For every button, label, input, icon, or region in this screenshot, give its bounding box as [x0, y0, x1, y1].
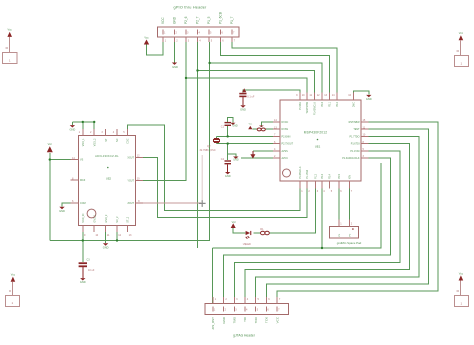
svg-text:ZOUT: ZOUT: [127, 202, 134, 205]
svg-text:TESTSBW: TESTSBW: [306, 101, 309, 113]
svg-text:VS: VS: [80, 159, 84, 162]
svg-text:32.768K_OSC: 32.768K_OSC: [200, 149, 216, 152]
svg-text:NC_2: NC_2: [116, 216, 119, 223]
svg-text:GND: GND: [222, 316, 226, 324]
svg-text:GND: GND: [173, 16, 177, 24]
svg-text:GND: GND: [70, 128, 76, 132]
svg-text:GND: GND: [172, 65, 178, 69]
svg-text:GND: GND: [225, 174, 231, 178]
svg-text:DNC: DNC: [353, 102, 356, 107]
svg-text:GND: GND: [240, 108, 246, 112]
svg-text:U$2: U$2: [106, 177, 112, 181]
svg-text:P1.7TDO: P1.7TDO: [350, 135, 360, 138]
svg-text:Vcc: Vcc: [11, 272, 16, 276]
svg-text:TMS: TMS: [233, 317, 237, 323]
svg-text:Vcc: Vcc: [459, 31, 464, 35]
svg-text:U$LED: U$LED: [243, 243, 251, 246]
svg-text:GND: GND: [233, 159, 239, 162]
svg-text:gndMtn Space Pad: gndMtn Space Pad: [337, 241, 362, 245]
svg-text:Vcc: Vcc: [232, 220, 237, 224]
svg-text:XOUT: XOUT: [127, 156, 134, 159]
svg-text:TEST: TEST: [353, 128, 360, 131]
svg-text:XIN: XIN: [349, 175, 352, 179]
svg-text:AVCC: AVCC: [282, 157, 289, 160]
svg-text:P1_6CB: P1_6CB: [219, 12, 223, 24]
svg-text:VDD_2: VDD_2: [93, 138, 96, 146]
svg-text:P1.3ADC10CLK: P1.3ADC10CLK: [342, 157, 360, 160]
svg-text:YOUT: YOUT: [127, 179, 134, 182]
svg-text:P1.6TDI: P1.6TDI: [351, 143, 360, 146]
svg-text:CDC: CDC: [127, 138, 130, 143]
svg-text:Vcc: Vcc: [8, 27, 13, 31]
svg-text:Vcc: Vcc: [48, 142, 53, 146]
svg-text:GND: GND: [59, 209, 65, 213]
svg-text:P1.4SMCLK: P1.4SMCLK: [314, 102, 317, 116]
svg-text:AVSS: AVSS: [282, 150, 289, 153]
svg-text:GND: GND: [103, 246, 109, 250]
svg-text:GND: GND: [232, 125, 238, 128]
svg-text:TCK: TCK: [265, 317, 269, 323]
svg-text:0.1 uF: 0.1 uF: [247, 96, 255, 99]
svg-text:ST: ST: [105, 138, 108, 142]
svg-text:MCZ: MCZ: [80, 179, 86, 182]
svg-text:GND_2: GND_2: [105, 214, 108, 223]
svg-text:GND: GND: [80, 280, 86, 284]
svg-text:ADXL330KCZ-RL: ADXL330KCZ-RL: [95, 154, 119, 158]
svg-text:gPIO thru Header: gPIO thru Header: [174, 5, 207, 9]
svg-text:Vcc: Vcc: [459, 271, 464, 275]
svg-text:TDI: TDI: [243, 317, 247, 322]
svg-text:NC: NC: [116, 138, 119, 142]
svg-text:10 uF: 10 uF: [88, 269, 95, 272]
svg-text:P2.6XIN: P2.6XIN: [282, 135, 291, 138]
svg-text:P1.2: P1.2: [315, 173, 318, 179]
svg-text:GND_1: GND_1: [93, 214, 96, 223]
svg-text:P2_7: P2_7: [196, 16, 200, 24]
svg-text:Vcc: Vcc: [144, 35, 149, 39]
svg-text:P1.1TA0: P1.1TA0: [350, 150, 360, 153]
svg-text:P2.0: P2.0: [321, 101, 324, 107]
svg-text:U$1: U$1: [315, 145, 321, 149]
svg-text:DVCC: DVCC: [282, 121, 289, 124]
svg-text:P2.4: P2.4: [329, 173, 332, 179]
svg-text:VDD_1: VDD_1: [82, 138, 85, 146]
svg-text:ST_2: ST_2: [127, 216, 130, 222]
svg-text:P1.0TACLK: P1.0TACLK: [299, 166, 302, 179]
svg-text:P2.7XOUT: P2.7XOUT: [282, 143, 294, 146]
svg-text:VCC: VCC: [161, 17, 165, 24]
svg-text:gJTAG Header: gJTAG Header: [233, 333, 256, 337]
svg-text:P2_6: P2_6: [184, 16, 188, 24]
svg-text:P1_7: P1_7: [230, 16, 234, 24]
svg-text:P2.3: P2.3: [321, 173, 324, 179]
svg-text:P1.5SK: P1.5SK: [299, 102, 302, 111]
svg-text:P1.1TA0: P1.1TA0: [306, 169, 309, 179]
svg-text:JP2_RST: JP2_RST: [211, 317, 215, 330]
svg-text:RST/SBW: RST/SBW: [349, 121, 361, 124]
svg-text:VCC: VCC: [275, 316, 279, 323]
svg-text:COM: COM: [80, 202, 86, 205]
svg-text:TDO: TDO: [254, 316, 258, 323]
svg-text:MSP430F2012: MSP430F2012: [304, 131, 327, 135]
svg-text:GND: GND: [366, 97, 372, 101]
svg-text:P2.5: P2.5: [338, 173, 341, 179]
svg-text:P1_5: P1_5: [207, 16, 211, 24]
svg-text:P2.1: P2.1: [329, 101, 332, 107]
svg-text:VDD_IO: VDD_IO: [82, 214, 85, 223]
svg-text:DVSS: DVSS: [282, 128, 289, 131]
svg-text:P2.2: P2.2: [336, 101, 339, 107]
